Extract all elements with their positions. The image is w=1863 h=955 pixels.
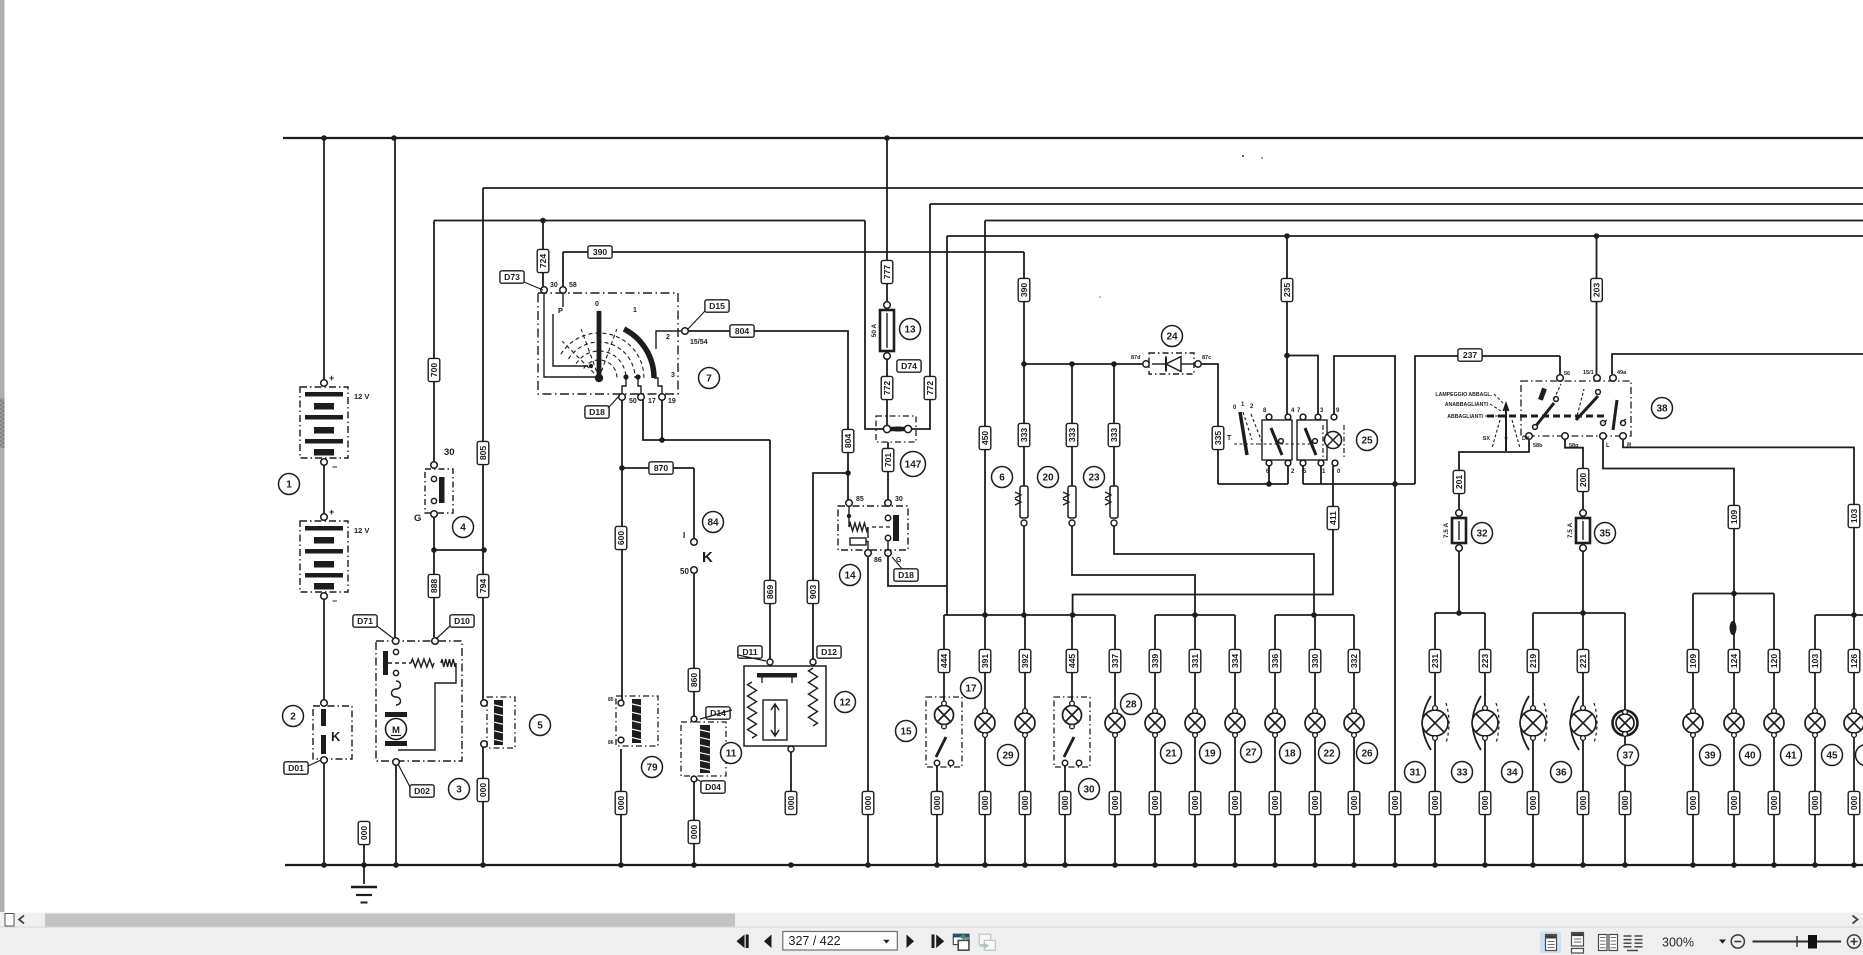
wire branch to switch25 pin3 [1287,356,1318,416]
wire label 794 [477,574,489,597]
wire ground stub [363,843,365,884]
wire diode out / 335 [1201,364,1218,484]
label 870 [649,462,673,474]
wire 870 branch to switch 84 [622,467,694,469]
svg-text:15/54: 15/54 [690,339,708,346]
wire 700 fuse4 column [433,221,435,463]
wire lamp drop x=1275 [1274,615,1276,709]
wire label 000 [1809,791,1821,814]
item 22 [1319,743,1340,764]
svg-text:17: 17 [965,684,977,695]
wire headlamp drop x=1533 [1532,613,1534,709]
svg-text:LAMPEGGIO ABBAGL.: LAMPEGGIO ABBAGL. [1435,392,1492,398]
svg-text:000: 000 [1310,796,1320,811]
switch 2 (battery master switch) [313,706,352,759]
svg-text:903: 903 [808,585,818,600]
lamp unit 15/17 with switch [926,697,962,767]
svg-text:SX: SX [1483,436,1491,442]
wire label 600 [615,526,627,549]
fuse 32 7.5A [1456,510,1463,517]
svg-text:56: 56 [1564,371,1570,377]
wire 333 fuse23 column [1113,364,1115,486]
headlamps 31/33/34/36 [1423,696,1432,750]
wire label 888 [428,574,440,597]
svg-text:L: L [1606,443,1610,449]
wire 805/794 column [482,188,484,700]
svg-text:231: 231 [1430,654,1440,669]
svg-text:237: 237 [1463,350,1478,360]
svg-text:D02: D02 [414,786,430,796]
wire label 200 [1577,468,1589,491]
svg-text:15/1: 15/1 [1583,370,1594,376]
item 25 [1357,430,1378,451]
svg-text:2: 2 [666,334,670,341]
svg-text:000: 000 [1528,796,1538,811]
bus line 3 [930,203,1863,205]
svg-text:27: 27 [1245,748,1257,759]
horizontal scrollbar [0,913,1863,928]
svg-text:19: 19 [1204,749,1216,760]
item 84 [703,512,724,533]
wire fuse4 to 805 jumper [434,549,484,551]
item 21 [1161,743,1182,764]
svg-text:3: 3 [671,372,675,379]
label 390 [588,246,612,258]
svg-text:391: 391 [980,654,990,669]
svg-text:11: 11 [726,749,737,760]
svg-text:G: G [414,513,421,524]
svg-text:DX: DX [1522,436,1530,442]
lamp 391 [975,709,995,738]
item 35 [1595,523,1616,544]
svg-text:7.5 A: 7.5 A [1567,523,1574,539]
lamp 331 [1185,709,1205,738]
svg-text:392: 392 [1020,654,1030,669]
wire 701 [887,442,889,500]
svg-text:804: 804 [843,434,853,449]
svg-text:50: 50 [680,567,689,576]
svg-text:5: 5 [537,721,543,732]
wire label 804 [842,429,854,452]
label D04 [701,781,725,793]
svg-text:000: 000 [616,796,626,811]
item 4 [453,517,474,538]
wire label 332 [1348,649,1360,672]
relay 14 [838,506,908,550]
wire lamp box 30 drop [1071,615,1073,702]
svg-text:ANABBAGLIANTI: ANABBAGLIANTI [1445,402,1489,408]
svg-text:38: 38 [1656,404,1668,415]
svg-text:724: 724 [538,254,548,269]
svg-text:79: 79 [646,763,658,774]
wire label 333 [1066,423,1078,446]
item 79 [642,757,663,778]
wire label 392 [1019,649,1031,672]
ink blot [1730,621,1737,635]
svg-text:25: 25 [1361,436,1373,447]
ground symbol [351,886,377,888]
svg-text:20: 20 [1042,473,1054,484]
wire label 805 [477,441,489,464]
svg-text:K: K [331,729,341,744]
top supply bus [283,137,1863,139]
wire switch25 bottom left [1218,483,1288,485]
svg-text:332: 332 [1349,654,1359,669]
partial circled number right edge [1856,745,1863,766]
wire label 860 [688,668,700,691]
svg-text:12 V: 12 V [354,526,369,535]
fuse 35 7.5A [1580,510,1587,517]
label 237 [1458,349,1482,361]
wire label 000 [1728,791,1740,814]
wire label 219 [1527,649,1539,672]
wire label 000 [1577,791,1589,814]
fuse 6 [1015,486,1028,526]
wire label 777 [881,260,893,283]
label D18 [894,569,918,581]
svg-text:23: 23 [1088,473,1100,484]
svg-text:D74: D74 [901,361,917,371]
wire 772 right from bus3 [912,204,930,429]
wire lamp box 15 drop [943,615,945,702]
svg-text:103: 103 [1849,509,1859,524]
feeder E [1533,612,1625,614]
item 36 [1551,762,1572,783]
wire label 701 [882,448,894,471]
wire 17 [643,400,770,440]
svg-text:333: 333 [1067,428,1077,443]
svg-text:41: 41 [1785,751,1797,762]
item 3 [449,779,470,800]
ballast coil 11 [691,716,697,722]
svg-text:29: 29 [1002,751,1014,762]
svg-text:6: 6 [999,473,1005,484]
wire label 000 [1309,791,1321,814]
wire lamp drop x=985 [984,615,986,709]
svg-text:D14: D14 [710,708,726,718]
svg-text:339: 339 [1150,654,1160,669]
item 33 [1452,762,1473,783]
svg-text:000: 000 [1390,796,1400,811]
svg-text:805: 805 [478,446,488,461]
bottom toolbar [0,927,1863,955]
svg-text:33: 33 [1456,768,1468,779]
wire fuse32 out [1458,550,1460,613]
svg-text:−: − [332,462,337,472]
svg-text:000: 000 [1349,796,1359,811]
svg-text:P: P [558,306,563,315]
wire lamp drop x=1315 [1314,615,1316,709]
svg-text:000: 000 [1230,796,1240,811]
wire label 000 [1429,791,1441,814]
lamp 392 [1015,709,1035,738]
previous view icon [953,934,969,944]
lamp 334 [1225,709,1245,738]
wire label 724 [537,249,549,272]
wire relay86 to ground [867,557,869,865]
item 32 [1472,523,1493,544]
svg-text:+: + [329,373,334,383]
svg-text:22: 22 [1323,749,1335,760]
svg-text:335: 335 [1213,431,1223,446]
wire headlamp drop x=1435 [1434,613,1436,709]
wire label 000 [477,778,489,801]
wire label 235 [1281,278,1293,301]
svg-text:411: 411 [1328,511,1338,525]
svg-text:147: 147 [905,460,922,471]
svg-text:700: 700 [429,363,439,378]
svg-text:4: 4 [460,523,466,534]
svg-text:28: 28 [1125,700,1137,711]
svg-text:000: 000 [359,826,369,841]
regulator 12 [767,659,773,665]
svg-text:+: + [329,507,334,517]
svg-text:14: 14 [844,571,856,582]
svg-text:39: 39 [1704,751,1716,762]
svg-text:000: 000 [1769,796,1779,811]
wire lamp drop x=1235 [1234,615,1236,709]
wire label 109 [1728,505,1740,528]
wire 724 [542,221,544,288]
item 15 [896,721,917,742]
svg-text:40: 40 [1744,751,1756,762]
wire lamp drop x=1115 [1114,615,1116,709]
wire label 700 [428,358,440,381]
wire lamp drop x=1854 [1853,615,1855,709]
item 13 [900,319,921,340]
svg-text:772: 772 [925,381,935,396]
label D71 [353,615,377,627]
svg-text:58: 58 [569,282,577,289]
feeder A [944,614,1115,616]
svg-text:336: 336 [1270,654,1280,669]
wire label 390 [1018,278,1030,301]
svg-text:445: 445 [1067,654,1077,669]
wire label 000 [1479,791,1491,814]
wire lamp drop x=1155 [1154,615,1156,709]
lamp 109 [1683,709,1703,738]
svg-text:869: 869 [765,585,775,600]
lamp 337 [1105,709,1125,738]
wire starter column [394,138,396,638]
svg-text:000: 000 [1729,796,1739,811]
svg-text:1: 1 [286,480,292,491]
ignition switch 7 [538,293,678,394]
wire label 000 [1687,791,1699,814]
first page icon [737,935,745,949]
svg-text:7: 7 [706,374,712,385]
item 2 [283,706,304,727]
svg-text:58b: 58b [1533,443,1543,449]
lamp 124 [1724,709,1744,738]
svg-text:17: 17 [648,398,656,405]
bus line 4 left segment [434,220,865,222]
svg-text:235: 235 [1282,283,1292,298]
wire label 000 [1389,791,1401,814]
item 1 [279,474,300,495]
svg-text:0: 0 [1504,436,1507,442]
svg-text:21: 21 [1165,749,1177,760]
lamp 332 [1344,709,1364,738]
bottom ground bus [285,864,1863,866]
svg-text:D71: D71 [357,616,373,626]
wire 58 [562,252,564,287]
wire label 333 [1108,423,1120,446]
lamp 126 [1844,709,1863,738]
svg-text:86: 86 [874,557,882,564]
svg-text:2: 2 [290,712,296,723]
svg-text:30: 30 [1083,785,1095,796]
svg-text:D73: D73 [504,272,520,282]
feeder D [1435,612,1485,614]
svg-text:84: 84 [707,518,719,529]
wire label 223 [1479,649,1491,672]
svg-text:12 V: 12 V [354,392,369,401]
item 18 [1280,743,1301,764]
svg-text:000: 000 [863,796,873,811]
svg-text:000: 000 [932,796,942,811]
svg-text:444: 444 [939,654,949,669]
fuse 20 [1063,486,1076,526]
svg-text:13: 13 [904,325,916,336]
label D73 [500,271,524,283]
wire label 333 [1018,423,1030,446]
svg-text:D01: D01 [288,763,304,773]
svg-text:D15: D15 [709,301,725,311]
item 26 [1357,743,1378,764]
item 20 [1038,467,1059,488]
wire label 000 [1019,791,1031,814]
feeder F [1693,593,1774,595]
svg-text:31: 31 [1409,768,1421,779]
svg-text:58g: 58g [1569,443,1578,449]
item 5 [530,715,551,736]
wire label 221 [1577,649,1589,672]
svg-text:000: 000 [478,783,488,798]
bus line 2 [483,187,1863,189]
svg-text:221: 221 [1578,654,1588,669]
item 41 [1781,745,1802,766]
svg-text:330: 330 [1310,654,1320,669]
wire label 000 [862,791,874,814]
svg-text:T: T [1227,435,1232,442]
svg-text:50 A: 50 A [871,323,878,337]
svg-text:18: 18 [1284,749,1296,760]
wire label 120 [1768,649,1780,672]
wire label 126 [1848,649,1860,672]
label D12 [817,646,841,658]
svg-text:390: 390 [593,247,608,257]
svg-text:30: 30 [895,496,903,503]
svg-text:804: 804 [735,326,750,336]
svg-text:ABBAGLIANTI: ABBAGLIANTI [1447,414,1483,420]
svg-text:334: 334 [1230,654,1240,669]
lamp 103 [1805,709,1825,738]
label D18 [585,406,609,418]
wire relay G to lamp drop [888,556,947,586]
svg-text:D12: D12 [821,647,837,657]
lamp unit 30/28 with switch [1054,697,1090,767]
wire label 000 [1619,791,1631,814]
wire 235 [1286,236,1288,415]
svg-text:777: 777 [882,265,892,280]
label D10 [450,615,474,627]
svg-text:126: 126 [1849,654,1859,669]
wire 237 [1415,356,1560,484]
wire 390 horizontal [563,251,1024,253]
svg-text:888: 888 [429,579,439,594]
lamp 330 [1305,709,1325,738]
item 6 [992,467,1013,488]
svg-text:26: 26 [1361,749,1373,760]
wire label 445 [1066,649,1078,672]
label D01 [284,762,308,774]
label D74 [897,360,921,372]
svg-text:600: 600 [616,531,626,546]
svg-text:203: 203 [1592,283,1602,298]
svg-text:000: 000 [786,796,796,811]
item 38 [1652,398,1673,419]
wire label 000 [688,820,700,843]
svg-text:D11: D11 [742,647,758,657]
wire label 411 [1327,506,1339,529]
wire lamp drop x=1734 [1733,594,1735,710]
wire label 330 [1309,649,1321,672]
junction dots [321,135,327,141]
wire 50 / 600 [621,400,623,700]
wire fuse35 out [1582,550,1584,613]
starter motor 3 [376,641,462,761]
wire label 444 [938,649,950,672]
wire label 000 [1269,791,1281,814]
svg-text:86: 86 [608,740,614,746]
wire 333 fuse20 column [1071,364,1073,486]
svg-text:34: 34 [1506,768,1518,779]
resistor 79 [616,696,658,746]
item 23 [1084,467,1105,488]
left sidebar strip [0,0,5,912]
item 24 [1162,326,1183,347]
bus line 4 right segment [985,220,1863,222]
svg-text:000: 000 [689,825,699,840]
wire label 000 [979,791,991,814]
svg-text:327 / 422: 327 / 422 [789,934,841,948]
dimmer switch 38 [1521,381,1631,436]
lamp 336 [1265,709,1285,738]
wire label 335 [1212,426,1224,449]
wire label 903 [807,580,819,603]
wire label 000 [785,791,797,814]
wire label 869 [764,580,776,603]
wire lamp drop x=1815 [1814,615,1816,709]
wire bus5 corner down to lamp 444 [946,236,948,615]
item 7 [699,368,720,389]
feeder G [1815,614,1863,616]
wire label 000 [1848,791,1860,814]
wire label 336 [1269,649,1281,672]
wire label 339 [1149,649,1161,672]
battery B1 12V [300,387,348,458]
wire headlamp drop x=1485 [1484,613,1486,709]
svg-text:000: 000 [1688,796,1698,811]
svg-text:124: 124 [1729,654,1739,669]
wire label 391 [979,649,991,672]
item 28 [1121,694,1142,715]
label 804 [730,325,754,337]
svg-text:32: 32 [1476,529,1488,540]
next page icon [907,935,915,949]
svg-text:D10: D10 [454,616,470,626]
